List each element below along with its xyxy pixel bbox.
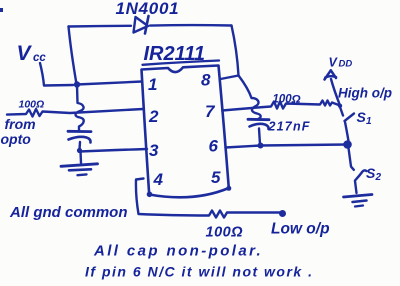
svg-text:1: 1 [148, 75, 157, 94]
svg-text:cc: cc [33, 52, 46, 64]
svg-text:V: V [17, 42, 33, 65]
svg-text:2: 2 [148, 107, 159, 126]
svg-text:from: from [5, 116, 36, 132]
svg-text:4: 4 [153, 170, 164, 189]
svg-text:6: 6 [209, 137, 219, 156]
svg-text:S: S [357, 109, 367, 125]
svg-text:V: V [329, 56, 339, 70]
svg-text:S: S [366, 165, 376, 181]
svg-text:If pin 6 N/C it will not work: If pin 6 N/C it will not work . [85, 264, 314, 280]
svg-text:7: 7 [205, 102, 216, 121]
svg-text:IR2111: IR2111 [144, 43, 206, 65]
svg-text:1N4001: 1N4001 [116, 0, 180, 18]
svg-text:8: 8 [201, 71, 211, 90]
svg-text:All gnd common: All gnd common [9, 204, 128, 221]
svg-text:100Ω: 100Ω [273, 94, 301, 106]
svg-text:3: 3 [149, 141, 159, 160]
svg-text:DD: DD [339, 59, 353, 70]
svg-text:217nF: 217nF [268, 120, 311, 134]
svg-text:5: 5 [211, 168, 221, 187]
svg-text:All cap non-polar.: All cap non-polar. [93, 243, 263, 260]
svg-text:High o/p: High o/p [338, 86, 392, 101]
svg-text:opto: opto [1, 131, 32, 147]
svg-text:1: 1 [366, 116, 372, 127]
svg-text:100Ω: 100Ω [19, 99, 45, 111]
svg-text:Low o/p: Low o/p [271, 221, 330, 238]
svg-text:2: 2 [375, 172, 382, 183]
svg-text:100Ω: 100Ω [206, 225, 244, 241]
